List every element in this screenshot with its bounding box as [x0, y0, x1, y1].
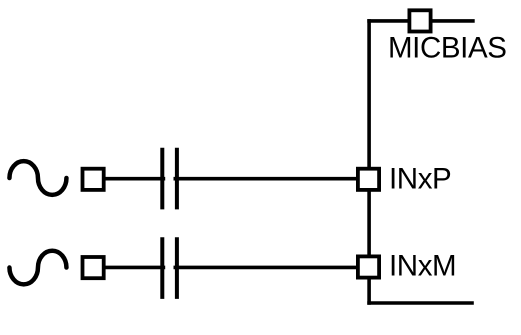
ac signal source (top, to INxP): [9, 161, 66, 195]
wire: capacitor C-bot to pin INxM: [174, 266, 358, 270]
pin square INxM: [358, 256, 379, 277]
pin square INxP: [358, 169, 379, 190]
svg-text:MICBIAS: MICBIAS: [388, 32, 507, 65]
capacitor C-bot (right plate): [175, 237, 179, 299]
terminal pad of bottom source: [83, 257, 104, 278]
wire: capacitor C-top to pin INxP: [174, 177, 358, 181]
capacitor C-top (AC coupling, left plate): [160, 148, 164, 210]
svg-text:INxM: INxM: [389, 250, 456, 283]
pin square MICBIAS: [409, 10, 430, 31]
wire: bottom horizontal from bus corner: [367, 301, 474, 305]
capacitor C-top (right plate): [175, 148, 179, 210]
wire: top source pad to capacitor C-top: [104, 177, 165, 181]
terminal pad of top source: [83, 169, 104, 190]
ac signal source (bottom, to INxM, inverted phase): [9, 251, 66, 285]
capacitor C-bot (AC coupling, left plate): [160, 237, 164, 299]
wire: vertical bus from MICBIAS down to bottom corner: [367, 19, 371, 305]
wire: bottom source pad to capacitor C-bot: [104, 266, 165, 270]
svg-text:INxP: INxP: [389, 163, 451, 196]
wire: MICBIAS horizontal (top): [367, 19, 474, 23]
